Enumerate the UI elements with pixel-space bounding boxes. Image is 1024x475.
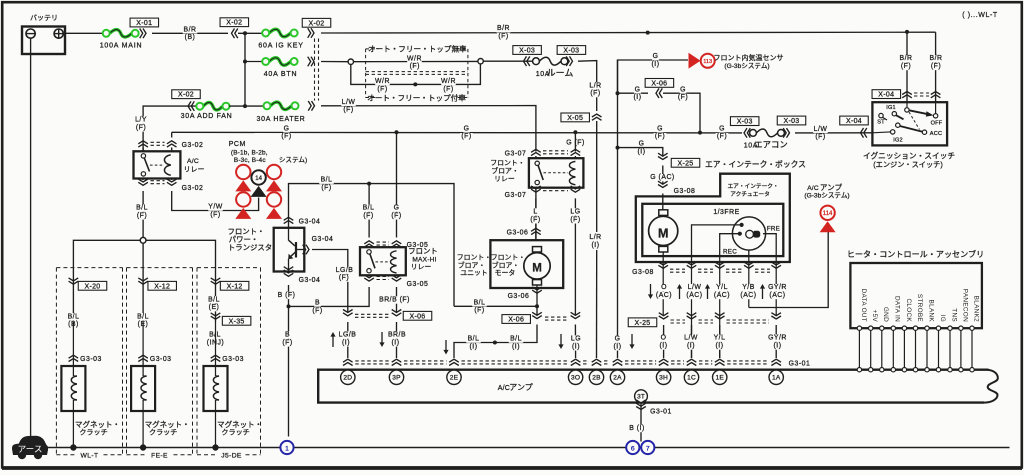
svg-text:(E): (E) [209, 304, 220, 311]
svg-text:(エンジン・スイッチ): (エンジン・スイッチ) [873, 160, 942, 169]
connector X-03 right room [566, 56, 572, 66]
wire B/L bus [289, 184, 455, 307]
wire B/L maxhi drop [368, 184, 370, 238]
svg-text:IG2: IG2 [893, 138, 903, 144]
label Y/L (I) [712, 335, 727, 350]
svg-text:X-03: X-03 [737, 119, 753, 126]
connector X-05 [592, 114, 602, 120]
connector X-06 h label [645, 79, 674, 88]
svg-text:113: 113 [703, 59, 712, 65]
label L (F) [529, 208, 542, 223]
relay MAX-HI dashed [376, 261, 390, 263]
label G (F) bus 4 [716, 125, 729, 140]
svg-text:IG1: IG1 [886, 105, 896, 111]
relay MAX-HI name [408, 247, 438, 272]
wire Y/L intake [720, 234, 739, 256]
connector X-01 [140, 29, 146, 39]
svg-text:Y/L: Y/L [714, 335, 726, 342]
label O (I) [658, 335, 669, 350]
svg-text:(G-3bシステム): (G-3bシステム) [804, 192, 849, 200]
svg-text:G3-01: G3-01 [789, 360, 811, 367]
svg-text:G: G [719, 125, 725, 132]
wire B/L blower link [454, 305, 537, 307]
label REC [723, 249, 737, 256]
label BR/B (F) [378, 296, 411, 303]
fuse 10A ROOM value [536, 68, 574, 78]
wire LG/B base [312, 250, 348, 313]
wire BR/B to amp [396, 322, 398, 358]
connector X-03 left room [524, 56, 530, 66]
svg-text:G3-05: G3-05 [407, 281, 429, 288]
svg-text:(F): (F) [655, 133, 665, 140]
ignition terminal ST label [877, 120, 885, 126]
connector X-20 label [78, 281, 107, 290]
svg-text:2E: 2E [450, 375, 459, 382]
svg-text:(I): (I) [512, 343, 520, 350]
svg-text:エア・インテーク・: エア・インテーク・ [727, 183, 778, 190]
connector G3-01 b label [649, 408, 672, 415]
label Y/W (F) [208, 203, 223, 218]
page note WL-T [962, 12, 998, 19]
svg-text:(I): (I) [613, 343, 621, 350]
label Y/L (AC) [713, 284, 731, 299]
svg-text:(F): (F) [312, 307, 322, 314]
svg-text:B (I): B (I) [629, 425, 645, 432]
svg-text:30A ADD FAN: 30A ADD FAN [181, 113, 233, 120]
wire Y/W [172, 191, 259, 211]
svg-text:1E: 1E [715, 375, 724, 382]
terminal 2E [447, 370, 461, 384]
connector G3-07 top label [503, 150, 528, 157]
svg-text:リレー: リレー [184, 166, 205, 173]
svg-text:X-05: X-05 [567, 115, 583, 122]
connector X-25 row label [628, 318, 657, 327]
label B/L (B) [66, 313, 81, 328]
node 6 [626, 441, 639, 454]
wire LG to amp [574, 325, 576, 359]
svg-text:L/R: L/R [589, 82, 601, 89]
svg-text:MAX-HI: MAX-HI [412, 256, 436, 263]
svg-text:(B-1b, B-2b,: (B-1b, B-2b, [231, 149, 268, 156]
connector X-02 addfan [188, 101, 194, 111]
svg-text:X-04: X-04 [878, 92, 894, 99]
wire GY/R intake [763, 234, 776, 256]
wire blower relay right [574, 132, 576, 151]
svg-text:X-35: X-35 [229, 318, 245, 325]
connector X-03 label right ac [777, 116, 806, 125]
dashed box system J5-DE [197, 268, 261, 460]
svg-text:LG/B: LG/B [339, 332, 357, 339]
svg-text:1/3FRE: 1/3FRE [713, 209, 739, 216]
clutch branch [73, 240, 215, 267]
connector X-06 row1 [343, 310, 401, 318]
FRE lamp [746, 230, 761, 238]
battery B+ wire [65, 32, 103, 34]
svg-text:IG: IG [939, 315, 946, 322]
svg-text:G3-03: G3-03 [150, 356, 172, 363]
wire G to X-06 [618, 92, 649, 94]
svg-text:J5-DE: J5-DE [221, 453, 242, 460]
svg-text:(F): (F) [590, 90, 600, 97]
fuse 40A BTN [262, 58, 297, 66]
svg-text:リレー: リレー [411, 264, 432, 271]
wire BR/B [396, 287, 398, 313]
svg-text:(AC): (AC) [714, 292, 730, 299]
ignition terminal IG1 label [886, 105, 896, 111]
heater control pins [857, 289, 979, 372]
fuse 100A MAIN value [100, 42, 143, 49]
arrow LG/B I [330, 332, 335, 347]
wire G into intake [662, 194, 664, 211]
svg-text:L/W: L/W [688, 284, 702, 291]
svg-text:L/W: L/W [684, 335, 698, 342]
svg-text:(F): (F) [377, 86, 387, 93]
transistor name [228, 227, 273, 252]
connector G3-03 c1 [69, 355, 79, 361]
label B/L (F) relay [135, 204, 150, 219]
svg-text:オート・フリー・トップ付車: オート・フリー・トップ付車 [367, 92, 466, 102]
label B/R (F) top [496, 25, 511, 40]
connector X-04 top label [872, 90, 901, 99]
svg-text:(I): (I) [715, 343, 723, 350]
wire G (F) from X-06 [663, 93, 700, 132]
magnet clutch 3 [204, 322, 228, 448]
label B/R (F) ign1 [899, 55, 914, 70]
label B (F) link [311, 299, 324, 314]
connector G3-06 top [531, 228, 541, 234]
svg-text:M: M [658, 226, 668, 240]
svg-text:FE-E: FE-E [151, 453, 168, 460]
connector X-03 label left room [513, 46, 542, 55]
svg-text:ブロア・: ブロア・ [492, 260, 520, 269]
svg-text:B (F): B (F) [278, 292, 296, 299]
svg-text:フロント・: フロント・ [491, 254, 525, 262]
svg-text:114: 114 [823, 211, 833, 217]
svg-text:B/L: B/L [474, 299, 486, 306]
svg-text:(F): (F) [281, 133, 291, 140]
svg-text:BR/B: BR/B [388, 332, 406, 339]
svg-text:G3-02: G3-02 [182, 142, 204, 149]
svg-text:X-06: X-06 [410, 313, 426, 320]
PCM ref circle BR [266, 192, 282, 219]
svg-text:X-25: X-25 [678, 160, 694, 167]
svg-text:L/R: L/R [589, 234, 601, 241]
connector X-03 label right room [557, 46, 586, 55]
svg-text:マグネット・: マグネット・ [75, 419, 120, 429]
connector X-25 row [659, 313, 781, 323]
svg-text:G3-07: G3-07 [505, 151, 527, 158]
PCM name [229, 141, 307, 164]
wire B/R (B) [152, 32, 228, 34]
label FRE [767, 226, 780, 233]
svg-text:(F): (F) [474, 307, 484, 314]
svg-text:A/C: A/C [498, 385, 510, 392]
svg-text:3P: 3P [392, 375, 401, 382]
svg-text:40A BTN: 40A BTN [264, 71, 298, 78]
junction B/L I [493, 341, 497, 345]
connector X-12 b label [220, 281, 249, 290]
svg-text:G3-03: G3-03 [80, 356, 102, 363]
svg-text:(I): (I) [342, 339, 350, 346]
node splice right [478, 59, 483, 64]
svg-text:ST: ST [877, 120, 885, 126]
svg-text:BLANK: BLANK [927, 300, 934, 323]
svg-text:1: 1 [285, 445, 289, 452]
connector X-12 a label [148, 281, 177, 290]
label W/R (F) top branch [407, 55, 422, 70]
connector X-03 label left ac [730, 117, 759, 126]
label W/R (F) lower right [441, 78, 456, 93]
relay blower dashed [544, 172, 569, 174]
svg-text:Y/L: Y/L [716, 284, 728, 291]
svg-text:GY/R: GY/R [768, 284, 787, 291]
svg-text:フロント・: フロント・ [457, 254, 491, 262]
svg-text:W/R: W/R [407, 55, 422, 62]
connector G3-06 top label [505, 229, 530, 236]
magnet clutch 1 name [75, 419, 120, 437]
label BR/B (I) [387, 331, 406, 346]
svg-text:G: G [615, 336, 621, 343]
intake motor M [649, 210, 678, 252]
terminal 3P [389, 370, 403, 384]
connector X-02 dashed link [315, 39, 319, 101]
svg-text:G3-02: G3-02 [182, 185, 204, 192]
label G (F) bus 2 [460, 125, 473, 140]
connector G3-03 c3 [211, 355, 221, 361]
terminal 1E [713, 370, 727, 384]
svg-text:O: O [661, 284, 667, 291]
svg-text:X-02: X-02 [178, 92, 194, 99]
A/C relay feed corner [171, 132, 173, 137]
svg-text:エア・インテーク・ボックス: エア・インテーク・ボックス [705, 160, 806, 169]
relay MAX-HI contact [367, 250, 375, 273]
magnet clutch 2 name [145, 419, 190, 437]
svg-text:G: G [639, 141, 645, 148]
svg-text:1C: 1C [687, 375, 696, 382]
FRE contact dots [738, 223, 744, 236]
arrow GYR AC [760, 284, 765, 299]
svg-text:クラッチ: クラッチ [79, 429, 107, 437]
battery label [30, 14, 58, 22]
fuse 30A ADD FAN value [181, 113, 233, 120]
connector G3-08 a [658, 181, 668, 187]
battery ground wire [30, 38, 32, 436]
svg-text:WL-T: WL-T [81, 453, 99, 460]
svg-text:DATA IN: DATA IN [894, 296, 901, 322]
junction G bus maxhi [395, 130, 399, 134]
fuse 100A MAIN [103, 30, 139, 38]
label B/L (F) bus [319, 177, 334, 192]
svg-text:クラッチ: クラッチ [221, 429, 249, 437]
connector G3-08 a label [672, 188, 697, 195]
svg-text:G: G [394, 205, 400, 212]
svg-text:PCM: PCM [229, 141, 246, 148]
blower motor name [491, 254, 525, 278]
svg-text:(F): (F) [931, 63, 941, 70]
connector X-06 row2 [532, 312, 580, 320]
connector X-06 row2 label [502, 315, 531, 324]
ref 113 arrow [689, 53, 701, 69]
svg-text:G3-08: G3-08 [674, 188, 696, 195]
label B/R (B) [183, 26, 198, 41]
wire G (AC) [662, 166, 664, 185]
air intake actuator name [727, 183, 778, 198]
connector X-25 a label [671, 158, 700, 167]
junction G bus x700 [698, 131, 702, 135]
magnet clutch 1 [61, 322, 85, 448]
svg-text:オート・フリー・トップ無車: オート・フリー・トップ無車 [368, 44, 467, 54]
wire relay pins top [143, 148, 172, 152]
connector G3-01 row label [788, 360, 811, 367]
connector G3-08 row [658, 262, 781, 272]
connector X-12 b [211, 278, 221, 284]
svg-text:(I): (I) [572, 343, 580, 350]
PCM ref circle TR [266, 165, 282, 192]
svg-text:REC: REC [723, 249, 737, 256]
svg-text:G: G [657, 125, 663, 132]
svg-text:X-25: X-25 [635, 320, 651, 327]
label 1/3FRE [713, 209, 739, 216]
wire L/R to amp [596, 250, 598, 358]
terminal 1C [684, 370, 698, 384]
svg-text:G: G [464, 125, 470, 132]
svg-text:アクチュエータ: アクチュエータ [730, 190, 770, 198]
svg-text:ACC: ACC [930, 131, 942, 137]
svg-text:バッテリ: バッテリ [30, 14, 58, 22]
ignition switch box [872, 102, 947, 145]
svg-text:(F): (F) [282, 339, 292, 346]
wire B to maxhi contact [289, 287, 370, 306]
svg-text:(F): (F) [901, 63, 911, 70]
svg-text:G3-04: G3-04 [312, 236, 334, 243]
wire BTN to node [321, 61, 348, 63]
relay blower name [490, 159, 524, 183]
svg-text:B/L: B/L [137, 313, 149, 320]
wire clutch2 top [142, 243, 144, 267]
dashed box auto-free-top [366, 49, 468, 98]
connector X-02 row2 [308, 57, 314, 67]
svg-text:B/L: B/L [468, 336, 480, 343]
connector X-02 label row1 [302, 18, 331, 27]
svg-text:3T: 3T [637, 394, 645, 401]
connector G3-04 top label [297, 218, 322, 225]
wire B emitter [288, 285, 290, 437]
svg-text:(I): (I) [651, 61, 659, 68]
svg-text:60A IG KEY: 60A IG KEY [258, 42, 303, 49]
blower motor M [524, 247, 550, 285]
connector G3-02 top [138, 141, 176, 147]
relay blower contact [535, 161, 543, 185]
label B/L (F) blower [472, 299, 487, 314]
label G (I) amp [612, 335, 623, 350]
label B (F) em [276, 292, 297, 299]
svg-text:(F): (F) [461, 133, 471, 140]
svg-text:W/R: W/R [441, 78, 456, 85]
svg-text:(F): (F) [678, 94, 688, 101]
connector G3-06 bottom [532, 287, 542, 293]
svg-text:X-03: X-03 [563, 48, 579, 55]
svg-text:X-12: X-12 [227, 283, 243, 290]
junction top bus 2 [905, 30, 909, 34]
fuse 40A BTN value [264, 71, 298, 78]
terminal 3O [568, 370, 582, 384]
connector G3-06 bottom label [506, 293, 531, 300]
wire B/R (F) top bus [321, 31, 936, 34]
svg-text:O: O [661, 335, 667, 342]
connector X-02 row1 [308, 28, 314, 38]
svg-text:B/L: B/L [68, 313, 80, 320]
wire W/R top branch [354, 60, 478, 62]
svg-text:DATA OUT: DATA OUT [860, 289, 867, 322]
junction B [287, 304, 291, 308]
junction G I x06 [616, 91, 620, 95]
svg-text:(F): (F) [363, 212, 373, 219]
air intake outer box [636, 174, 790, 262]
junction clutch3 gnd [212, 444, 218, 450]
connector G3-05 bottom label [405, 281, 430, 288]
svg-text:ユニット: ユニット [460, 270, 488, 277]
connector X-02 label top [220, 18, 249, 27]
svg-text:X-06: X-06 [508, 317, 524, 324]
svg-text:(F): (F) [137, 212, 147, 219]
wire B/L clutch feed [142, 191, 144, 238]
svg-text:M: M [532, 263, 542, 275]
label B/L (INJ) [205, 331, 226, 346]
svg-text:30A HEATER: 30A HEATER [257, 116, 306, 123]
connector G3-03 c3 label [221, 356, 246, 363]
svg-text:リレー: リレー [494, 176, 515, 183]
connector X-04 top [902, 92, 940, 98]
connector X-04 [861, 128, 867, 138]
svg-text:アンプ: アンプ [820, 183, 843, 192]
svg-text:(AC): (AC) [740, 292, 756, 299]
terminal 1A [769, 370, 783, 384]
svg-text:B/L: B/L [510, 336, 522, 343]
heater control box [850, 263, 982, 328]
wire L/W intake [692, 225, 741, 256]
label GY/R (AC) [768, 284, 787, 299]
svg-text:B/L: B/L [208, 296, 220, 303]
svg-text:(F): (F) [498, 33, 508, 40]
ignition switch internals [872, 102, 937, 134]
svg-text:フロント内気温センサ: フロント内気温センサ [714, 53, 784, 62]
svg-text:G3-04: G3-04 [299, 218, 321, 225]
label LG/B (I) [338, 331, 357, 346]
relay A/C dashed [150, 164, 164, 166]
heater control name [847, 249, 984, 259]
svg-text:(F): (F) [391, 212, 401, 219]
wire LG blower [574, 198, 576, 315]
svg-text:マグネット・: マグネット・ [217, 419, 262, 429]
svg-text:(I): (I) [591, 242, 599, 249]
connector X-03 left ac [744, 128, 750, 138]
connector X-35 label [222, 316, 251, 325]
transistor Q1 [288, 228, 304, 272]
junction feed addfan [243, 104, 247, 108]
ref 114 name [804, 183, 849, 200]
svg-text:G3-06: G3-06 [507, 229, 529, 236]
svg-text:システム): システム) [279, 156, 307, 164]
svg-text:B-3c, B-4c: B-3c, B-4c [234, 157, 266, 164]
junction top bus 1 [646, 31, 650, 35]
wire 40A BTN feed [245, 61, 263, 63]
label L/R (F) [588, 82, 603, 97]
svg-text:L/Y: L/Y [135, 117, 147, 124]
svg-text:Y/B: Y/B [742, 284, 755, 291]
terminal 2B [589, 370, 603, 384]
label G (F) x06 [677, 86, 690, 101]
feed bus vertical [244, 33, 246, 106]
